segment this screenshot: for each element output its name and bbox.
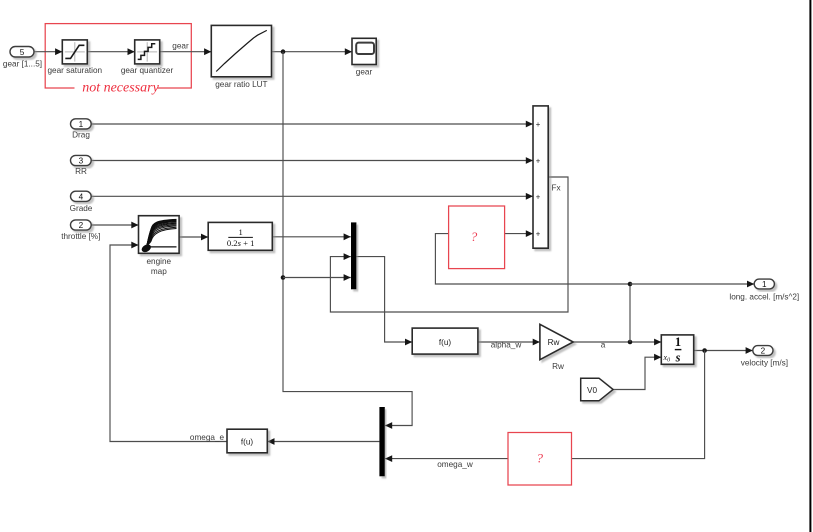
node junction gear to mux3 [281, 275, 286, 280]
wire gear branch to mux input3 [283, 274, 351, 281]
svg-text:1: 1 [762, 280, 767, 289]
signal label Fx [552, 184, 561, 193]
signal label omega_e [190, 433, 225, 442]
label Drag [72, 131, 90, 140]
wire upper question block to sum input4 [505, 230, 533, 237]
svg-text:?: ? [537, 451, 544, 466]
engine map block [139, 216, 180, 254]
transfer function block 1/(0.2s+1) [208, 222, 272, 250]
inport 4 Grade [71, 191, 92, 201]
signal label a [601, 341, 606, 350]
wire port5 to gear saturation [34, 48, 62, 55]
svg-text:engine: engine [147, 257, 172, 266]
svg-text:gear: gear [172, 41, 189, 50]
label throttle [%] [61, 232, 100, 241]
svg-text:not necessary: not necessary [82, 81, 159, 96]
annotation red box around gear saturation and quantizer [45, 24, 191, 88]
label engine map [147, 257, 172, 276]
saturation block gear saturation [62, 40, 87, 64]
wire Fx sum output to mux input2 [330, 177, 568, 312]
mux block top [351, 222, 356, 289]
wire engine map to transfer fcn [179, 234, 208, 241]
gain block Rw [540, 324, 573, 359]
label gear [1...5] [3, 60, 42, 69]
outport 1 long accel [754, 279, 774, 289]
svg-text:long. accel. [m/s^2]: long. accel. [m/s^2] [729, 292, 799, 301]
unknown block upper question mark [449, 206, 505, 269]
wire long accel to outport1 [630, 281, 754, 288]
wire Grade to sum [91, 193, 533, 200]
wire transfer fcn to mux input1 [272, 233, 351, 240]
svg-text:+: + [536, 157, 541, 166]
wire gain Rw to integrator [573, 339, 661, 346]
svg-text:s: s [675, 350, 681, 364]
signal label gear [172, 41, 189, 50]
unknown block lower question mark [508, 433, 572, 486]
svg-text:1: 1 [79, 120, 84, 129]
label Grade [70, 204, 93, 213]
wire bottom mux output to f(u) flipped [267, 438, 379, 445]
svg-text:1: 1 [238, 227, 242, 237]
fcn block f(u) omega_e flipped [227, 429, 267, 453]
svg-text:f(u): f(u) [241, 437, 254, 446]
signal label alpha_w [491, 341, 522, 350]
svg-text:gear ratio LUT: gear ratio LUT [215, 80, 267, 89]
svg-text:2: 2 [79, 221, 84, 230]
label RR [75, 167, 87, 176]
svg-text:gear: gear [356, 67, 373, 76]
svg-text:velocity [m/s]: velocity [m/s] [741, 359, 788, 368]
svg-text:a: a [601, 341, 606, 350]
svg-text:RR: RR [75, 167, 87, 176]
label Rw [552, 362, 564, 371]
wire a branch to upper question block input [435, 234, 630, 284]
wire a up to long accel line [629, 284, 631, 342]
wire feedback omega_e to engine map input2 [110, 242, 227, 442]
svg-text:+: + [536, 192, 541, 201]
fcn block f(u) alpha_w [412, 328, 478, 354]
inport 1 Drag [71, 119, 92, 129]
node junction long accel line [628, 282, 633, 287]
svg-text:?: ? [471, 229, 478, 244]
svg-text:throttle [%]: throttle [%] [61, 232, 100, 241]
wire gear quantizer to gear ratio LUT [160, 48, 212, 55]
label long accel [729, 292, 799, 301]
svg-text:omega_e: omega_e [190, 433, 225, 442]
wire f(u) to gain Rw [478, 339, 540, 346]
inport 3 RR [71, 155, 92, 165]
svg-text:map: map [151, 267, 167, 276]
sum block Fx [533, 106, 548, 248]
node junction gear line [281, 49, 286, 54]
svg-text:2: 2 [761, 347, 766, 356]
svg-text:4: 4 [79, 192, 84, 201]
svg-text:1: 1 [675, 335, 681, 349]
inport 2 throttle [71, 220, 92, 230]
svg-text:3: 3 [79, 157, 84, 166]
wire velocity feedback to lower question block [572, 351, 705, 459]
svg-text:gear [1...5]: gear [1...5] [3, 60, 42, 69]
mux block bottom flipped [379, 407, 384, 476]
window border right edge [809, 0, 811, 532]
svg-text:+: + [536, 230, 541, 239]
wire gear signal down to bottom mux [283, 52, 412, 429]
svg-text:0.2s + 1: 0.2s + 1 [227, 238, 255, 248]
constant block V0 [581, 378, 613, 401]
svg-text:gear saturation: gear saturation [47, 66, 102, 75]
svg-text:V0: V0 [587, 386, 597, 395]
wire integrator to outport2 [694, 347, 753, 354]
wire gear saturation to gear quantizer [87, 48, 134, 55]
wire V0 to integrator x0 [613, 354, 661, 390]
label gear quantizer [121, 66, 174, 75]
inport 5 gear [10, 47, 34, 58]
svg-text:f(u): f(u) [439, 338, 452, 347]
svg-text:5: 5 [20, 48, 25, 57]
annotation text not necessary [75, 80, 160, 96]
label velocity [741, 359, 788, 368]
svg-text:omega_w: omega_w [437, 460, 473, 469]
wire throttle to engine map [91, 222, 138, 229]
wire RR to sum [91, 157, 533, 164]
integrator block 1/s [661, 335, 693, 365]
outport 2 velocity [753, 346, 773, 356]
svg-text:Drag: Drag [72, 131, 90, 140]
svg-text:gear quantizer: gear quantizer [121, 66, 174, 75]
label gear saturation [47, 66, 102, 75]
svg-text:Rw: Rw [552, 362, 564, 371]
svg-text:Grade: Grade [70, 204, 93, 213]
node junction a line [628, 340, 633, 345]
scope block gear [352, 38, 376, 64]
node junction velocity line [702, 348, 707, 353]
wire Drag to sum [91, 121, 533, 128]
label gear scope [356, 67, 373, 76]
svg-text:alpha_w: alpha_w [491, 341, 522, 350]
svg-text:+: + [536, 120, 541, 129]
svg-text:Fx: Fx [552, 184, 561, 193]
wire mux output to f(u) [356, 257, 412, 346]
lookup table block gear ratio LUT [211, 25, 271, 76]
label gear ratio LUT [215, 80, 267, 89]
signal label omega_w [437, 460, 473, 469]
svg-text:Rw: Rw [548, 338, 560, 347]
wire lower question block to bottom mux input2 [385, 455, 508, 462]
wire gear ratio LUT to scope [272, 48, 353, 55]
quantizer block gear quantizer [135, 40, 160, 64]
